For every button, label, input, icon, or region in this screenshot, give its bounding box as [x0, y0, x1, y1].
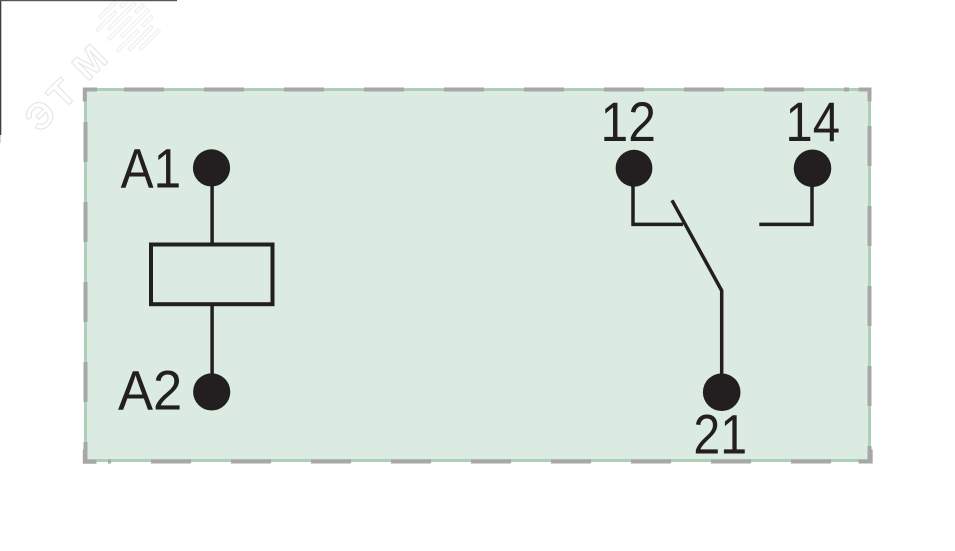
dashed border top — [84, 88, 849, 92]
svg-text:21: 21 — [693, 404, 747, 466]
terminal 12 — [616, 150, 653, 187]
frame line top horizontal — [0, 0, 177, 1]
coil K — [151, 245, 273, 305]
wire 14 L-shape — [759, 180, 812, 224]
terminal 21 — [703, 373, 741, 411]
dashed border right — [868, 88, 872, 462]
dashed border corner top-left — [85, 90, 97, 102]
dashed border left — [84, 88, 88, 462]
switch arm blade — [672, 200, 722, 380]
watermark ЭТМ logo — [11, 0, 165, 143]
wire A1 to coil — [210, 180, 214, 244]
terminal 14 — [794, 150, 832, 188]
svg-text:A2: A2 — [118, 359, 182, 421]
dashed border corner top-right — [859, 90, 870, 102]
terminal A2 — [193, 373, 230, 410]
terminal A1 — [193, 149, 230, 186]
svg-text:A1: A1 — [121, 138, 182, 200]
wire coil to A2 — [210, 305, 214, 380]
relay outline box — [86, 90, 870, 461]
frame line top-left vertical — [0, 0, 1, 135]
dashed border corner bottom-left — [85, 450, 97, 462]
dashed border bottom — [108, 460, 871, 464]
svg-text:14: 14 — [785, 91, 840, 153]
svg-text:12: 12 — [601, 91, 656, 153]
dashed border corner bottom-right — [859, 450, 871, 462]
wire 12 L-shape — [633, 180, 683, 224]
